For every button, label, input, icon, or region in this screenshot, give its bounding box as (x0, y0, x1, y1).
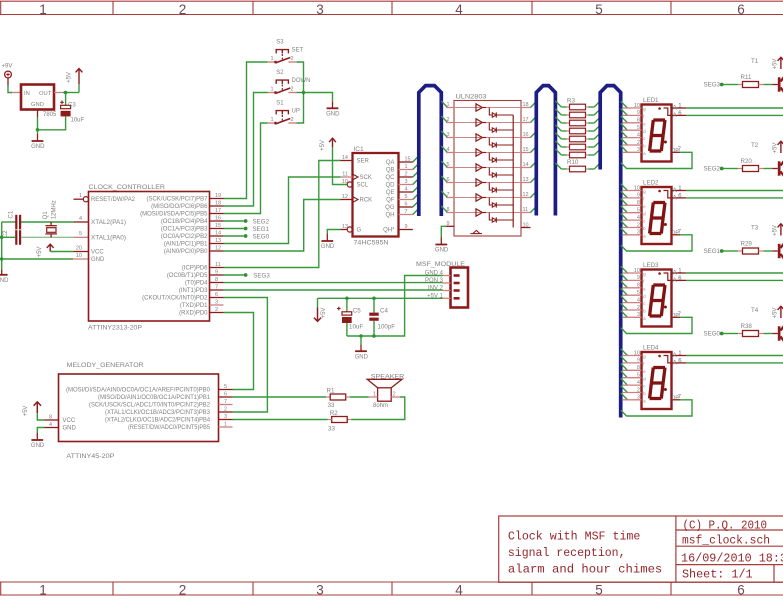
svg-text:2: 2 (637, 305, 640, 311)
capacitor C5 10uF (346, 298, 348, 312)
pin 7 PD3 (210, 289, 224, 291)
wire S2 to PB6 (224, 93, 268, 207)
svg-text:RCK: RCK (360, 198, 373, 204)
wire QH to bus (413, 208, 419, 214)
svg-text:ATTINY2313-20P: ATTINY2313-20P (88, 325, 142, 332)
svg-text:33: 33 (328, 425, 335, 432)
wire VCC row to +5V (51, 251, 75, 253)
pin 17 PB5 (210, 213, 224, 215)
svg-text:3: 3 (447, 132, 450, 138)
wire +5V rail (318, 297, 443, 299)
ground below 7805 (37, 130, 39, 134)
pin 1 QB (399, 169, 413, 171)
supply +5V at T2 (780, 141, 782, 153)
svg-text:2: 2 (637, 140, 640, 146)
ground bottom-left (1, 270, 3, 275)
ULN output pin 17 (521, 122, 531, 124)
supply +5V at regulator (78, 69, 80, 84)
svg-text:8: 8 (215, 277, 218, 283)
wire S1 pin2 up (296, 93, 303, 124)
svg-text:12: 12 (523, 192, 529, 198)
MSF pin 3 PON (443, 282, 451, 284)
LED2 pin 6 anode (672, 197, 687, 199)
pin 7 QH (399, 214, 413, 216)
svg-text:7: 7 (405, 209, 408, 215)
svg-text:A: A (673, 278, 677, 284)
svg-text:SEG0: SEG0 (253, 233, 270, 240)
IC clock controller ATTINY2313-20P (89, 192, 210, 322)
resistor R29 (738, 250, 743, 252)
svg-text:3: 3 (316, 583, 324, 598)
svg-text:A: A (673, 188, 677, 194)
pin 1 RESET (74, 198, 84, 200)
svg-text:GND: GND (63, 426, 77, 432)
wire PD4 to MSF PON (224, 282, 443, 284)
svg-text:10: 10 (634, 103, 640, 109)
svg-text:74HC595N: 74HC595N (354, 240, 389, 247)
resistor ladder R7 (555, 133, 561, 139)
ULN channel 1 (441, 101, 447, 108)
IC1 74HC595N shift register (353, 153, 399, 237)
svg-text:2: 2 (291, 56, 294, 62)
melody pin 7 PB2 (219, 404, 233, 406)
capacitor C1 (15, 215, 17, 230)
capacitor C3 10uF (61, 105, 71, 108)
wire PD2 to melody PB3 (224, 298, 268, 413)
svg-text:10: 10 (634, 350, 640, 356)
wire QF to bus (413, 193, 419, 199)
LED1 pin 3 (621, 146, 628, 153)
svg-text:4: 4 (455, 583, 463, 598)
svg-text:MELODY_GENERATOR: MELODY_GENERATOR (67, 362, 144, 369)
svg-text:(RXD)PD0: (RXD)PD0 (179, 311, 208, 317)
wire G to ground (327, 230, 340, 235)
pin 15 PB3 (210, 228, 224, 230)
svg-text:2: 2 (291, 87, 294, 93)
svg-text:c: c (643, 384, 645, 389)
wire SEG3 to R11 (723, 84, 738, 86)
wire SEG1 to R29 (723, 250, 738, 252)
LED4 digit eight (653, 366, 665, 369)
svg-text:(C) P.Q. 2010: (C) P.Q. 2010 (683, 520, 768, 533)
svg-text:GND: GND (355, 355, 369, 361)
pin 6 QG (399, 206, 413, 208)
svg-text:GND: GND (435, 248, 449, 254)
svg-text:7: 7 (447, 192, 450, 198)
svg-text:2: 2 (215, 307, 218, 313)
svg-text:SEG3: SEG3 (253, 272, 270, 279)
svg-text:A: A (673, 105, 677, 111)
svg-text:(MOSI/DI/SDA/AIN0/OC0A/OC1A/AR: (MOSI/DI/SDA/AIN0/OC0A/OC1A/AREF/PCINT0)… (66, 388, 211, 394)
pin 16 PB4 (210, 220, 224, 222)
wire output 15 to bus (531, 146, 537, 152)
svg-text:18: 18 (215, 200, 221, 206)
svg-text:A: A (673, 360, 677, 366)
LED3 pin 9 (621, 274, 628, 281)
LED2 pin 9 (621, 191, 628, 198)
melody pin 5 PB0 (219, 389, 233, 391)
svg-text:10: 10 (342, 179, 348, 185)
wire SEG2 to R20 (723, 168, 738, 170)
svg-text:5: 5 (79, 231, 82, 237)
melody pin 2 PB3 (219, 411, 233, 413)
ULN output pin 13 (521, 182, 531, 184)
wire PB1 to R1 (233, 396, 327, 398)
svg-text:R29: R29 (741, 241, 753, 248)
svg-text:2: 2 (224, 406, 227, 412)
ground switches (332, 101, 334, 108)
wire output 18 to bus (531, 101, 537, 107)
wire ULN pin9 to ground (441, 226, 446, 237)
pin 11 SCK clock (341, 176, 353, 178)
svg-text:8: 8 (447, 207, 450, 213)
svg-text:LED4: LED4 (643, 345, 659, 352)
svg-text:T4: T4 (751, 307, 759, 314)
svg-text:R3: R3 (567, 97, 575, 104)
wire LED4 anode1 right (686, 355, 783, 357)
LED2 pin 3 (621, 228, 628, 235)
LED1 pin 4 (621, 131, 628, 138)
supply +5V at IC vcc (49, 244, 51, 251)
net stub SEG2 (224, 220, 244, 222)
wire LED1 anode6 right (686, 114, 783, 116)
svg-text:GND: GND (31, 102, 44, 108)
svg-text:S2: S2 (276, 70, 284, 76)
svg-text:1: 1 (447, 102, 450, 108)
wire PB4 to R2 (233, 419, 328, 421)
resistor ladder R4 (555, 109, 561, 115)
svg-text:QE: QE (386, 190, 395, 196)
svg-text:Sheet: 1/1: Sheet: 1/1 (682, 569, 753, 582)
svg-text:+5V: +5V (320, 140, 326, 151)
LED4 pin 2 (621, 386, 628, 393)
resistor ladder R3 (555, 101, 561, 107)
svg-text:(XTAL1/CLKI/OC1B/ADC3/PCINT3)P: (XTAL1/CLKI/OC1B/ADC3/PCINT3)PB3 (105, 410, 211, 416)
svg-text:S1: S1 (276, 101, 284, 107)
ULN channel 8 (441, 206, 447, 213)
junction GND node (36, 128, 40, 132)
svg-text:(INT1)PD3: (INT1)PD3 (179, 288, 208, 294)
ULN internal emitter mark (473, 230, 480, 233)
svg-text:T3: T3 (751, 225, 759, 232)
melody pin 8 VCC (45, 419, 59, 421)
resistor R11 (738, 84, 743, 86)
wire GND row (2, 258, 73, 260)
svg-text:R38: R38 (741, 323, 753, 330)
LED3 pin 6 anode (672, 279, 687, 281)
LED3 pin 8 (621, 281, 628, 288)
svg-text:100pF: 100pF (378, 323, 396, 330)
svg-text:R1: R1 (327, 387, 335, 394)
wire XTAL1 row (2, 236, 16, 238)
svg-text:4: 4 (637, 380, 640, 386)
supply +5V at T3 (780, 224, 782, 236)
svg-text:(ICP)PD6: (ICP)PD6 (182, 266, 208, 272)
svg-text:4: 4 (455, 2, 463, 17)
supply +5V melody (36, 402, 38, 413)
svg-text:SCK: SCK (360, 175, 372, 181)
svg-text:(SCK/UCSK/PCI7)PB7: (SCK/UCSK/PCI7)PB7 (146, 197, 208, 203)
ULN pin 10 COM (521, 227, 531, 229)
ULN output pin 15 (521, 152, 531, 154)
svg-text:A: A (673, 195, 677, 201)
pin 9 QH* (399, 229, 413, 231)
wire R9 to bus (594, 149, 600, 155)
wire QC to bus (413, 171, 419, 177)
pin 19 PB7 (210, 198, 224, 200)
melody pin 3 PB4 (219, 419, 233, 421)
svg-text:XTAL2(PA1): XTAL2(PA1) (91, 220, 126, 226)
ULN pin 9 GND (446, 225, 454, 227)
ULN output pin 14 (521, 167, 531, 169)
svg-text:VCC: VCC (91, 250, 104, 256)
transistor T1 (772, 84, 778, 86)
svg-text:+5V: +5V (772, 308, 778, 319)
wire QG to bus (413, 201, 419, 207)
ground ULN (440, 238, 442, 245)
LED4 polarity marker (658, 355, 661, 358)
LED4 pin 5 (621, 371, 628, 378)
svg-text:SER: SER (357, 159, 370, 165)
wire LED3 anode6 right (686, 279, 783, 281)
transistor T2 (772, 168, 778, 170)
svg-text:4: 4 (637, 132, 640, 138)
svg-text:13: 13 (523, 177, 529, 183)
svg-text:5: 5 (405, 194, 408, 200)
LED2 pin 2 (621, 221, 628, 228)
svg-text:GND: GND (0, 278, 9, 284)
svg-text:IC1: IC1 (354, 146, 365, 153)
svg-text:PON 3: PON 3 (425, 278, 444, 284)
LED1 pin 8 (621, 116, 628, 123)
svg-text:SEG3: SEG3 (703, 82, 720, 89)
svg-text:LED3: LED3 (643, 262, 659, 269)
svg-text:3: 3 (316, 2, 324, 17)
svg-text:16: 16 (215, 215, 221, 221)
svg-text:6: 6 (447, 177, 450, 183)
LED2 pin 8 (621, 199, 628, 206)
svg-text:9: 9 (637, 275, 640, 281)
pin 4 XTAL2 (74, 221, 89, 223)
svg-text:8: 8 (637, 118, 640, 124)
svg-text:QA: QA (386, 160, 395, 166)
pin 14 PB2 (210, 235, 224, 237)
svg-text:15: 15 (405, 156, 411, 162)
svg-text:7: 7 (215, 284, 218, 290)
wire S1 to PB5 (224, 123, 268, 214)
wire S2 pin2 to junction (296, 92, 303, 94)
melody pin 4 GND (45, 427, 59, 429)
wire output 17 to bus (531, 116, 537, 122)
svg-text:Q1: Q1 (43, 211, 49, 220)
LED3 polarity marker (658, 272, 661, 275)
svg-text:Clock with MSF time: Clock with MSF time (508, 531, 641, 544)
resistor ladder R5 (555, 117, 561, 123)
svg-text:SEG2: SEG2 (703, 166, 720, 173)
wire LED3 anode1 right (686, 272, 783, 274)
7805 GND pin wire (37, 110, 39, 118)
svg-text:3: 3 (224, 414, 227, 420)
svg-text:4: 4 (637, 215, 640, 221)
svg-text:1: 1 (39, 583, 47, 598)
svg-text:CLOCK_CONTROLLER: CLOCK_CONTROLLER (89, 184, 166, 191)
MSF pin 4 GND (443, 275, 451, 277)
LED4 pin 4 (621, 378, 628, 385)
svg-text:16/09/2010 18:3: 16/09/2010 18:3 (681, 553, 783, 566)
svg-text:S3: S3 (276, 40, 284, 46)
svg-text:6: 6 (405, 201, 408, 207)
pin 15 QA (399, 161, 413, 163)
wire PB1 to SCK (224, 177, 341, 244)
wire VCC to +5V (37, 413, 44, 420)
LED3 pin 1 anode (672, 272, 687, 274)
svg-text:RESET/DW/PA2: RESET/DW/PA2 (91, 197, 136, 203)
LED1 polarity marker (658, 107, 661, 110)
svg-text:GND: GND (326, 112, 340, 118)
LED4 pin 10 (621, 349, 628, 356)
wire QE to bus (413, 186, 419, 192)
svg-text:1: 1 (270, 117, 273, 123)
LED3 pin 5 (621, 288, 628, 295)
wire output 14 to bus (531, 161, 537, 167)
svg-text:GND: GND (321, 244, 335, 250)
pin 8 PD4 (210, 282, 224, 284)
net stub SEG3 (224, 274, 244, 276)
wire LED2 DP to bus (621, 235, 692, 251)
LED2 pin 5 (621, 206, 628, 213)
LED2 pin 1 anode (672, 190, 687, 192)
svg-text:20: 20 (76, 245, 82, 251)
wire C3 bottom to GND (38, 116, 66, 129)
wire LED3 DP to bus (621, 317, 692, 333)
LED3 pin 10 (621, 266, 628, 273)
MSF pin 2 INV (443, 290, 451, 292)
svg-text:5: 5 (595, 583, 603, 598)
resistor ladder R8 (555, 141, 561, 147)
svg-text:10: 10 (523, 222, 529, 228)
wire LED2 anode6 right (686, 197, 783, 199)
svg-text:7: 7 (224, 399, 227, 405)
svg-text:16: 16 (523, 132, 529, 138)
ULN output pin 18 (521, 107, 531, 109)
wire PD6 to SER (224, 161, 341, 268)
svg-text:G: G (357, 228, 362, 234)
svg-text:SEG1: SEG1 (703, 248, 720, 255)
wire MSF GND to cap rail (347, 276, 443, 337)
svg-text:(CKOUT/XCK/INT0)PD2: (CKOUT/XCK/INT0)PD2 (142, 296, 208, 302)
svg-text:(OC1B/PCI4)PB4: (OC1B/PCI4)PB4 (161, 219, 208, 225)
wire XTAL2 row (2, 221, 16, 223)
pin 13 G inverted (341, 229, 348, 231)
svg-text:4: 4 (637, 297, 640, 303)
ground caps (360, 336, 362, 344)
svg-text:14: 14 (342, 155, 348, 161)
capacitor C4 100pF (373, 298, 375, 312)
wire output 12 to bus (531, 191, 537, 197)
svg-text:3: 3 (637, 312, 640, 318)
junction rail GND row (0, 257, 4, 261)
pin 2 PD0 (210, 312, 224, 314)
svg-text:6: 6 (737, 583, 745, 598)
svg-text:12: 12 (215, 245, 221, 251)
svg-text:9: 9 (447, 221, 450, 227)
svg-text:(T0)PD4: (T0)PD4 (185, 281, 208, 287)
LED1 pin 9 (621, 109, 628, 116)
ULN common diode rail (512, 115, 514, 228)
wire PD0 to melody PB0 (224, 313, 254, 390)
svg-text:5: 5 (595, 2, 603, 17)
wire PB0 to RCK (224, 200, 341, 252)
svg-text:C4: C4 (380, 308, 388, 315)
svg-text:OUT: OUT (39, 91, 52, 97)
wire PD3 to MSF INV (224, 289, 443, 291)
ULN output pin 12 (521, 197, 531, 199)
LED1 pin 5 (621, 123, 628, 130)
LED4 pin 1 anode (672, 355, 687, 357)
svg-text:SET: SET (292, 48, 304, 54)
svg-text:+9V: +9V (2, 64, 13, 70)
bus resistors to displays (600, 86, 621, 418)
svg-text:R20: R20 (741, 158, 753, 165)
svg-text:GND: GND (31, 144, 45, 150)
net stub SEG0 (224, 235, 244, 237)
svg-text:LED2: LED2 (643, 180, 659, 187)
svg-text:1: 1 (79, 193, 82, 199)
wire QD to bus (413, 178, 419, 184)
svg-text:12MHz: 12MHz (52, 200, 58, 219)
svg-text:ULN2803: ULN2803 (456, 93, 488, 100)
svg-text:(XTAL2/CLKO/OC1B/ADC2/PCINT4)P: (XTAL2/CLKO/OC1B/ADC2/PCINT4)PB4 (105, 418, 211, 424)
LED2 polarity marker (658, 190, 661, 193)
svg-text:+5V: +5V (37, 247, 43, 258)
svg-text:3: 3 (405, 179, 408, 185)
svg-text:QH: QH (386, 213, 395, 219)
svg-text:(MISO/DO/PCI6)PB6: (MISO/DO/PCI6)PB6 (151, 204, 208, 210)
wire LED1 DP to bus (621, 152, 692, 168)
svg-text:+5V: +5V (321, 308, 327, 319)
svg-text:DOWN: DOWN (292, 78, 311, 84)
svg-text:A: A (673, 353, 677, 359)
svg-text:2: 2 (393, 391, 396, 397)
svg-text:18: 18 (523, 102, 529, 108)
svg-text:(OC0B/T1)PD5: (OC0B/T1)PD5 (167, 273, 208, 279)
svg-text:12: 12 (342, 194, 348, 200)
svg-text:2: 2 (637, 387, 640, 393)
net stub SEG1 (224, 228, 244, 230)
svg-text:c: c (643, 219, 645, 224)
wire SEG0 to R38 (723, 333, 738, 335)
melody pin 1 PB5 (219, 426, 233, 428)
svg-text:(OC1A/PCI3)PB3: (OC1A/PCI3)PB3 (161, 227, 208, 233)
wire R4 to bus (594, 109, 600, 115)
svg-text:33: 33 (328, 402, 335, 409)
svg-text:R11: R11 (741, 74, 752, 81)
svg-text:8: 8 (637, 365, 640, 371)
wire GND to ground (37, 428, 44, 434)
ULN channel 5 (441, 161, 447, 168)
LED1 pin 7 DP (672, 151, 681, 153)
svg-text:LED1: LED1 (643, 97, 659, 104)
svg-text:C1: C1 (9, 210, 15, 218)
wire ground rail left (1, 222, 3, 270)
pin 10 SCL inverted (347, 182, 352, 187)
wire R7 to bus (594, 133, 600, 139)
svg-text:SEG0: SEG0 (703, 331, 720, 338)
wire S3 to PB7 (224, 62, 268, 199)
LED4 pin 9 (621, 356, 628, 363)
svg-text:17: 17 (523, 117, 529, 123)
junction cap rail C4 (372, 334, 376, 338)
